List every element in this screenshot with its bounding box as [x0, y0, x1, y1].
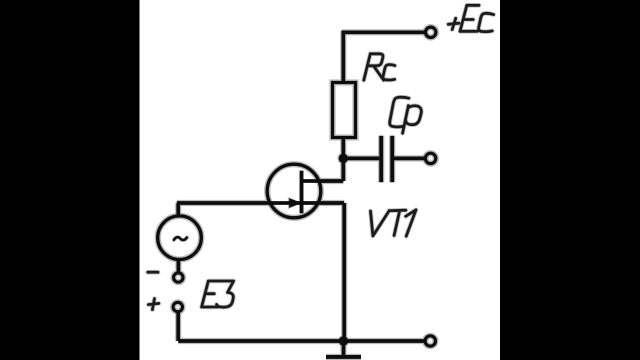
label Rc — [364, 54, 395, 80]
transistor VT1 body circle — [267, 164, 321, 218]
label Cp — [390, 97, 422, 133]
wire: E3 bottom stub — [177, 260, 181, 272]
wire: drain lead — [302, 179, 344, 183]
label +Ec — [448, 5, 493, 31]
minus sign — [148, 271, 158, 274]
terminal +Ec — [426, 27, 436, 37]
source E3 circle — [158, 216, 202, 260]
resistor Rc — [333, 83, 356, 138]
capacitor Cp right plate — [390, 136, 394, 183]
transistor VT1 gate arrow — [289, 198, 301, 208]
ground bar — [326, 355, 361, 359]
ground stub — [342, 341, 346, 356]
soft halo underlay — [148, 5, 494, 357]
node: drain/cap junction — [339, 154, 348, 163]
wire: plus terminal down to ground rail — [176, 312, 180, 342]
transistor VT1 channel line — [300, 171, 304, 214]
wire: ground rail — [178, 339, 425, 343]
label VT1 — [371, 210, 417, 236]
wire: Cp right plate to output terminal — [394, 157, 425, 161]
terminal common bottom — [425, 336, 435, 346]
wire: stub E3 top — [176, 203, 180, 217]
wire: gate lead from E3 — [177, 201, 301, 205]
terminal minus — [174, 273, 183, 282]
wire: source down to ground rail — [342, 203, 346, 341]
white schematic panel — [140, 0, 501, 360]
wire: source lead — [302, 201, 345, 205]
wire: node to Cp left plate — [343, 157, 379, 161]
source E3 sine symbol — [174, 237, 187, 240]
wire: +Ec rail horizontal to terminal — [342, 30, 425, 34]
node: ground junction — [339, 336, 348, 345]
capacitor Cp left plate — [379, 136, 383, 183]
plus sign — [148, 299, 158, 310]
wire: Rc bottom to drain corner — [341, 138, 345, 181]
label E3 — [202, 281, 234, 307]
terminal plus — [173, 302, 182, 311]
wire: +Ec rail vertical drop to Rc — [341, 31, 345, 82]
terminal output — [425, 153, 435, 163]
